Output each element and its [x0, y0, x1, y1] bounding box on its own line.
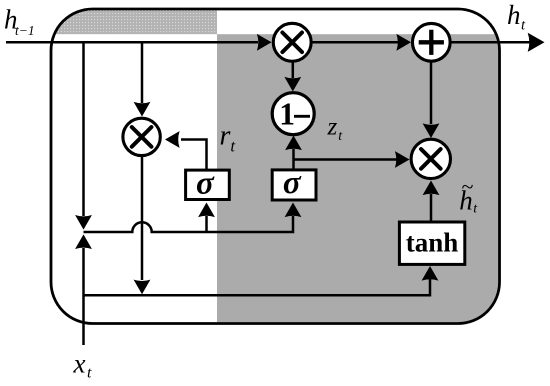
- arrowhead z(t) into X3: [395, 151, 410, 168]
- arrowhead into sigma R bottom: [198, 203, 215, 218]
- wire V1 h(t-1) down to concat line: [82, 44, 85, 217]
- one-minus circle: [272, 93, 314, 135]
- wire X1 down to one-minus: [292, 61, 295, 78]
- svg-text:σ: σ: [283, 165, 302, 201]
- wire concat line A with hop: [84, 216, 294, 232]
- wire plus down to multiply X3: [430, 61, 433, 124]
- wire branch up to sigma R: [205, 216, 208, 232]
- multiply circle X3: [411, 139, 450, 178]
- wire tanh output up to X3: [430, 194, 433, 222]
- svg-text:~: ~: [461, 174, 473, 199]
- plus circle U-add: [412, 23, 450, 61]
- wire sigma Z up to one-minus: [292, 149, 295, 170]
- tanh box: [399, 222, 464, 264]
- sigma box R (reset gate): [186, 165, 230, 201]
- svg-text:tanh: tanh: [406, 228, 459, 258]
- svg-text:1: 1: [279, 97, 295, 132]
- arrowhead h(t) output: [528, 33, 545, 52]
- shaded update-gate region: [217, 34, 500, 324]
- wire h(t-1) input to multiply X1: [6, 41, 258, 44]
- cell body rounded rectangle: [51, 9, 500, 324]
- dotted h(t-1) band: [52, 10, 217, 34]
- wire plus to h(t) output: [450, 41, 530, 44]
- arrowhead into X1: [257, 34, 272, 51]
- arrowhead into one-minus top: [284, 77, 301, 92]
- arrowhead into tanh bottom: [422, 266, 439, 281]
- arrowhead into X3 bottom: [423, 181, 440, 196]
- arrowhead x(t) into concat line: [75, 234, 92, 249]
- wire x(t) up to concat line: [82, 248, 85, 345]
- wire z(t) branch to multiply X3: [294, 158, 398, 161]
- svg-text:σ: σ: [196, 165, 215, 201]
- wire X1 to plus: [311, 41, 398, 44]
- arrowhead into X3 top: [423, 123, 440, 138]
- wire V2 h(t-1) down to multiply X2: [141, 44, 144, 104]
- arrowhead X2 output into tanh input line: [134, 280, 151, 295]
- arrowhead r(t) into X2: [165, 131, 180, 148]
- arrowhead V2 into X2: [134, 102, 151, 117]
- multiply circle X2: [123, 118, 160, 155]
- arrowhead into sigma Z bottom: [285, 203, 302, 218]
- wire sigma R output r(t) to X2: [181, 140, 207, 171]
- sigma box Z (update gate): [272, 165, 316, 201]
- arrowhead V1 into concat line: [75, 215, 92, 230]
- wire tanh input line B: [84, 279, 431, 295]
- arrowhead into one-minus bottom: [285, 136, 302, 151]
- arrowhead into plus: [396, 34, 411, 51]
- wire X2 down through hop to tanh input line: [141, 155, 144, 280]
- multiply circle X1: [273, 23, 311, 61]
